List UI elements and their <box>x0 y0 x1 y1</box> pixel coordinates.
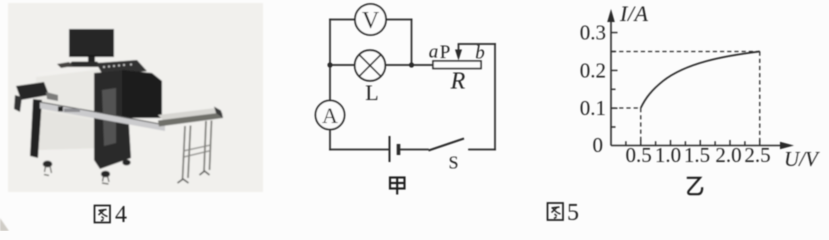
table right lip <box>214 107 223 119</box>
canopy-to-body gray link <box>46 92 58 101</box>
junction node left <box>327 62 332 67</box>
dashed guide 0.1 horizontal <box>612 107 641 109</box>
keyboard on top <box>57 62 73 68</box>
dashed guide 0.25 horizontal <box>612 51 760 53</box>
svg-text:0.1: 0.1 <box>580 96 606 120</box>
left caster foot <box>43 161 53 168</box>
svg-text:b: b <box>475 43 485 64</box>
switch S <box>429 139 465 173</box>
x axis <box>611 145 780 147</box>
y axis <box>610 22 612 146</box>
caption jia glyph <box>390 178 405 195</box>
front face lower shading <box>35 110 104 150</box>
scan smudge bottom-left corner <box>0 218 9 231</box>
svg-text:U/V: U/V <box>784 147 820 171</box>
machine top face <box>34 65 114 80</box>
photo background <box>8 3 263 192</box>
table feet <box>178 179 189 183</box>
wire right branch vertical <box>411 20 413 66</box>
x axis arrow <box>780 142 794 149</box>
y axis arrow <box>607 9 615 22</box>
svg-text:4: 4 <box>115 202 127 228</box>
machine white front face <box>35 69 104 150</box>
svg-text:1.5: 1.5 <box>684 143 710 167</box>
tunnel exit shroud <box>122 70 162 118</box>
label on band <box>58 107 63 112</box>
svg-text:P: P <box>440 42 451 63</box>
svg-text:0.3: 0.3 <box>580 21 606 45</box>
wire lamp row right to rheostat <box>385 64 433 66</box>
x ticks <box>626 140 760 146</box>
canopy left lip <box>14 95 22 112</box>
caption 图5 : glyph TU <box>548 203 564 220</box>
y ticks <box>611 33 618 127</box>
circuit diagram (figure jia) <box>330 20 495 150</box>
roller table top <box>158 108 222 121</box>
I-U curve <box>641 52 760 109</box>
svg-text:L: L <box>365 80 378 105</box>
svg-text:I/A: I/A <box>619 1 648 26</box>
wire bottom left to battery <box>330 149 390 151</box>
cross braces <box>183 145 211 157</box>
svg-text:2.0: 2.0 <box>715 143 741 167</box>
wire top horizontal left <box>330 19 355 21</box>
console inner gray column <box>102 88 116 146</box>
battery cell <box>390 136 399 162</box>
svg-text:0: 0 <box>593 133 604 157</box>
wire battery to switch <box>399 149 429 151</box>
wire top-left vertical <box>329 20 331 101</box>
table legs far pair <box>204 121 212 173</box>
voltmeter V <box>355 4 386 35</box>
lamp L <box>355 50 386 105</box>
svg-text:A: A <box>322 103 338 128</box>
svg-text:1.0: 1.0 <box>655 143 681 167</box>
wire lamp row left <box>330 64 355 66</box>
svg-text:5: 5 <box>567 200 579 226</box>
right dark console cabinet <box>94 70 131 169</box>
dashed guide 0.5 vertical <box>640 108 642 146</box>
wire top horizontal right <box>386 19 412 21</box>
svg-text:R: R <box>450 69 466 95</box>
junction node right <box>409 62 414 67</box>
dashed guide 2.5 vertical <box>759 52 761 146</box>
wire left lower vertical <box>329 130 331 150</box>
ammeter A <box>316 101 345 130</box>
left dark pillar <box>30 99 42 158</box>
light belt band across front <box>40 103 165 132</box>
roller table front edge <box>158 113 223 127</box>
caption yi glyph <box>687 178 702 194</box>
control panel on top right <box>96 60 147 77</box>
svg-text:0.5: 0.5 <box>625 143 651 167</box>
table legs near pair <box>183 126 191 181</box>
monitor stand <box>88 57 95 63</box>
wire switch right stub <box>469 149 495 151</box>
svg-text:S: S <box>448 153 458 173</box>
wire right vertical <box>494 44 496 150</box>
wire slider horizontal <box>459 43 496 45</box>
svg-text:0.2: 0.2 <box>580 59 606 83</box>
monitor screen <box>69 29 114 57</box>
console bottom feet <box>101 171 110 178</box>
photo of X-ray baggage scanner (figure 4) <box>0 3 263 231</box>
svg-text:a: a <box>429 42 439 63</box>
svg-text:2.5: 2.5 <box>744 143 770 167</box>
entrance canopy (dark slab, top-left) <box>16 82 49 100</box>
slider P arrow <box>440 42 462 63</box>
rheostat R body <box>433 61 481 95</box>
svg-text:V: V <box>362 8 380 34</box>
caption 图4 : glyph TU <box>95 206 111 223</box>
